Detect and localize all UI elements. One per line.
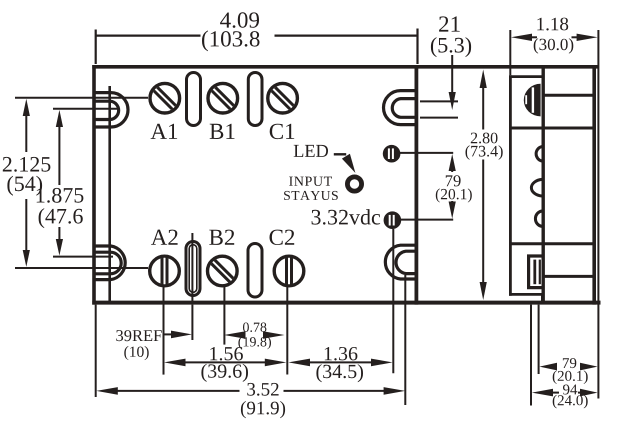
dim 2.80 down arrowhead xyxy=(480,282,487,300)
mounting slot bottom-left outer xyxy=(96,246,126,280)
side view bottom clip inner right wall xyxy=(539,260,541,285)
label 79mid xyxy=(446,175,461,186)
label (20.1)mid xyxy=(436,188,472,202)
LED upper leader line xyxy=(399,152,453,154)
dim 3.52 shaft left xyxy=(114,390,240,392)
mounting slot bottom-right outer xyxy=(385,245,415,279)
barrier slot between A2 and B2 inner xyxy=(189,245,197,293)
dim 1.875 upper leader xyxy=(53,108,118,110)
extension line right slot center bottom xyxy=(392,229,394,373)
extension line 3.52 right xyxy=(404,275,406,405)
label STAYUS xyxy=(284,191,338,200)
dim .79 left arrowhead xyxy=(539,363,557,371)
side view spring bump 2 xyxy=(531,179,541,196)
mounting slot top-right outer xyxy=(384,91,416,125)
side view divider terminal row upper xyxy=(543,94,592,97)
dim 79 up arrowhead xyxy=(449,154,456,171)
barrier slot between A2 and B2 center line xyxy=(191,233,193,302)
dim 21 leader vertical xyxy=(451,55,453,96)
dim 21 lower reference line xyxy=(420,117,458,119)
side view base plate bottom step xyxy=(541,293,544,303)
label 21 xyxy=(439,16,460,31)
label INPUT xyxy=(289,177,332,186)
dim 1.18 right extension xyxy=(597,30,599,399)
label C1 xyxy=(270,124,295,139)
label 1.18 xyxy=(537,18,568,31)
dim 1.36 shaft xyxy=(306,361,375,363)
label 2.80 xyxy=(471,133,498,144)
label (73.4) xyxy=(466,145,503,160)
label (34.5) xyxy=(316,364,363,382)
side view divider terminal row lower xyxy=(543,275,592,278)
dim 39REF arrowhead xyxy=(171,331,192,339)
label (24.0)r xyxy=(553,395,588,409)
label 94r xyxy=(563,385,577,395)
label 3.32vdc xyxy=(312,209,381,225)
label 2.125 xyxy=(3,157,51,172)
extension line .94 left xyxy=(530,305,532,406)
dim 2.80 vertical line lower xyxy=(482,160,484,289)
terminal screw A2 xyxy=(150,256,180,286)
barrier slot between B1 and C1 xyxy=(248,73,262,126)
barrier slot between A1 and B1 xyxy=(187,73,201,126)
dim 2.125 vertical lower xyxy=(25,199,27,255)
label 79r xyxy=(563,358,576,368)
label (10) xyxy=(124,346,148,360)
side view top clip blob xyxy=(524,84,541,117)
dim 0.78 right arrowhead xyxy=(263,331,285,339)
terminal screw C2 xyxy=(274,256,304,286)
LED label arrow wedge xyxy=(342,154,356,173)
extension line body left bottom xyxy=(95,305,97,397)
extension line A2 bottom xyxy=(163,287,165,375)
dim .94 shaft right xyxy=(578,392,582,394)
side view center divider xyxy=(542,65,545,303)
label C2 xyxy=(270,230,295,245)
extension line C2 bottom xyxy=(286,287,288,375)
dim 1.36 left arrowhead xyxy=(288,359,310,367)
side view divider lower xyxy=(509,242,594,245)
dim 4.09 line right segment xyxy=(275,34,418,36)
barrier slot between B2 and C2 xyxy=(248,244,262,298)
mounting slot top-left outer xyxy=(96,93,129,127)
side view bottom clip inner xyxy=(533,260,536,285)
label A1 xyxy=(151,124,178,139)
label (91.9) xyxy=(241,401,285,418)
label (47.6 xyxy=(39,208,83,228)
side view base plate top edge xyxy=(509,75,544,78)
dim 1.18 left arrow xyxy=(511,34,532,41)
dim 4.09 line left segment xyxy=(96,34,201,36)
side view divider slot bottom xyxy=(510,127,592,130)
dim 1.875 up arrowhead xyxy=(56,110,63,127)
extension line .79 left xyxy=(538,305,540,374)
label (30.0) xyxy=(534,38,574,53)
label 3.52 xyxy=(247,383,278,396)
dim .94 left arrowhead xyxy=(532,389,553,397)
dim 4.09 right extension tick xyxy=(416,29,418,65)
label B2 xyxy=(209,230,234,245)
label B1 xyxy=(210,124,235,139)
dim 1.36 right arrowhead xyxy=(371,359,393,367)
terminal screw A1 xyxy=(150,83,180,113)
side view bottom clip outer xyxy=(529,256,544,288)
LED indicator dot upper xyxy=(383,145,401,163)
dim 3.52 right arrowhead xyxy=(384,387,406,395)
dim 0.78 left arrowhead xyxy=(224,331,246,339)
label 4.09 xyxy=(220,12,259,28)
dim 2.125 up arrowhead xyxy=(23,99,30,116)
mounting slots left center line xyxy=(108,86,111,302)
LED indicator dot lower xyxy=(384,211,402,229)
label (20.1)r xyxy=(553,370,588,384)
label 1.56 xyxy=(210,347,243,361)
label 1.36 xyxy=(325,347,358,361)
dim 2.125 down arrowhead xyxy=(23,250,30,267)
dim 1.875 vertical lower xyxy=(58,227,60,245)
dim 1.875 down arrowhead xyxy=(56,239,63,256)
dim 39REF shaft xyxy=(164,333,179,335)
dim 2.125 vertical upper xyxy=(25,111,27,152)
dim 3.52 shaft right xyxy=(284,390,390,392)
extension line B2 bottom xyxy=(223,287,225,345)
dim 1.56 shaft xyxy=(182,361,266,363)
label LED xyxy=(294,145,328,157)
dim 2.80 vertical line upper xyxy=(482,81,484,130)
side view spring bump 1 xyxy=(536,147,542,161)
input status LED ring xyxy=(347,177,361,191)
label (54) xyxy=(7,176,42,196)
dim 1.875 vertical upper xyxy=(58,122,60,185)
dim 1.18 left shaft xyxy=(528,36,537,38)
dim 1.18 left extension xyxy=(509,30,511,75)
dim 79 vertical lower xyxy=(451,201,453,207)
label (19.8) xyxy=(238,337,271,350)
dim 1.56 right arrowhead xyxy=(265,359,287,367)
side view right edge xyxy=(592,65,596,305)
label (103.8 xyxy=(202,30,260,51)
side view spring bump 3 xyxy=(535,211,541,226)
dim 1.56 left arrowhead xyxy=(164,359,186,367)
terminal screw C1 xyxy=(268,83,298,113)
dim 4.09 left extension tick xyxy=(95,30,97,65)
mounting slot bottom-right inner xyxy=(396,251,416,273)
dim .94 shaft left xyxy=(550,392,559,394)
label 0.78 xyxy=(243,323,266,333)
dim 2.125 upper leader to A1 xyxy=(15,97,148,99)
dim 21 upper reference line xyxy=(420,100,458,102)
dim 3.52 left arrowhead xyxy=(96,387,118,395)
dim 2.80 up arrowhead xyxy=(480,70,487,89)
side view base plate left edge xyxy=(509,75,512,296)
mounting slot top-right inner xyxy=(392,99,415,118)
label 1.875 xyxy=(37,188,84,203)
body outline top edge xyxy=(92,65,598,69)
dim 1.18 right shaft xyxy=(572,36,581,38)
label 39REF xyxy=(116,330,161,341)
mounting slot top-left inner xyxy=(96,101,119,119)
dim .79 right arrowhead xyxy=(580,363,598,371)
body outline left edge xyxy=(92,65,96,305)
label (5.3) xyxy=(431,37,471,57)
body outline right edge xyxy=(414,65,418,305)
terminal screw B2 xyxy=(208,256,238,286)
dim 2.125 lower leader to A2 xyxy=(15,267,148,269)
dim 1.18 right arrow xyxy=(577,34,598,41)
side view base plate bottom edge xyxy=(509,293,544,296)
dim 79 down arrowhead xyxy=(449,202,456,219)
LED label leader line xyxy=(334,153,346,155)
LED lower leader line 3.32vdc xyxy=(400,219,453,221)
dim 79 vertical upper xyxy=(451,166,453,172)
terminal screw B1 xyxy=(208,83,238,113)
label (39.6) xyxy=(201,364,248,382)
label A2 xyxy=(151,230,178,245)
mounting slot bottom-left inner xyxy=(96,252,122,274)
barrier slot between A2 and B2 xyxy=(186,242,200,296)
dim .94 right arrowhead xyxy=(580,389,598,397)
dim 1.875 lower leader xyxy=(53,256,113,258)
extension line barrier slot bottom xyxy=(191,305,193,340)
dim 21 down arrowhead xyxy=(449,92,456,110)
body outline bottom edge xyxy=(92,301,600,305)
